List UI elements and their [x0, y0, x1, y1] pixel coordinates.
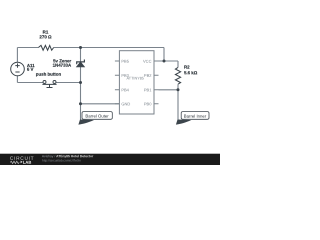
- svg-text:PB1: PB1: [144, 87, 152, 92]
- svg-text:1N4733A: 1N4733A: [53, 63, 72, 68]
- svg-text:ATTINY85: ATTINY85: [127, 76, 144, 80]
- svg-text:VCC: VCC: [143, 59, 152, 64]
- svg-text:6 V: 6 V: [27, 67, 34, 72]
- svg-text:Barrel Outer: Barrel Outer: [85, 114, 109, 119]
- svg-text:270 Ω: 270 Ω: [39, 34, 52, 39]
- svg-text:http://circuitlab.com/c/7kr9n: http://circuitlab.com/c/7kr9n: [42, 159, 81, 163]
- svg-text:5.6 kΩ: 5.6 kΩ: [184, 70, 198, 75]
- svg-text:R2: R2: [184, 64, 190, 69]
- svg-text:Barrel Inner: Barrel Inner: [184, 114, 207, 119]
- svg-text:GND: GND: [121, 101, 130, 106]
- svg-text:PB2: PB2: [144, 73, 152, 78]
- svg-text:PB4: PB4: [121, 87, 129, 92]
- svg-text:LAB: LAB: [23, 160, 31, 165]
- svg-text:PB5: PB5: [121, 59, 129, 64]
- svg-text:push button: push button: [36, 72, 62, 77]
- svg-text:PB0: PB0: [144, 101, 152, 106]
